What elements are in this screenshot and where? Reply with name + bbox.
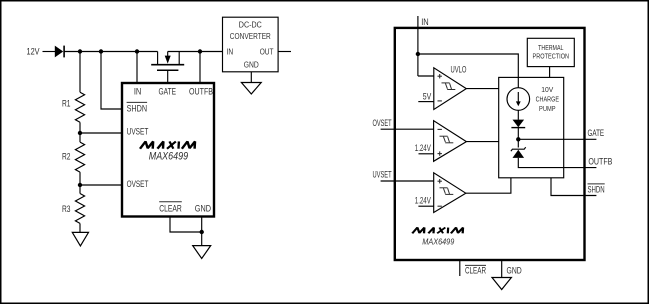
svg-text:SHDN: SHDN (588, 184, 605, 194)
wire main 12V rail (64, 51, 158, 53)
svg-text:MAX6499: MAX6499 (422, 236, 454, 246)
svg-text:OVSET: OVSET (127, 179, 149, 189)
wire R3 leads (79, 185, 81, 194)
wire DC-DC OUT stub (278, 51, 291, 53)
node gate junction (516, 137, 520, 141)
wire CLEAR stub right (459, 260, 461, 276)
wire DC-DC GND stub (250, 72, 252, 83)
svg-text:PUMP: PUMP (539, 104, 556, 113)
svg-text:IN: IN (227, 47, 234, 56)
logo MAXIM left (140, 141, 195, 148)
DC-DC converter box (223, 17, 279, 72)
wire UVLO output (466, 88, 498, 90)
wire IN to UVLO comparator (418, 75, 434, 77)
op-amp U1 MAX6499 box (122, 83, 214, 217)
node OVSET tap junction (78, 183, 82, 187)
current source stub (517, 77, 519, 87)
wire SHDN output (551, 178, 596, 196)
node UVSET tap junction (78, 131, 82, 135)
node junction rail/IN (135, 49, 139, 53)
svg-text:MAX6499: MAX6499 (149, 151, 188, 163)
svg-text:GND: GND (244, 61, 259, 70)
UVSET cmp plus (438, 179, 442, 183)
svg-text:10V: 10V (541, 85, 553, 94)
wire rail to SHDN pin (101, 52, 122, 110)
wire rail to R1 (79, 52, 81, 93)
node 1.24V reference ovset (419, 153, 434, 155)
svg-text:GATE: GATE (159, 87, 177, 97)
svg-text:UVLO: UVLO (451, 64, 467, 74)
charge pump box (499, 77, 564, 177)
svg-text:OVSET: OVSET (373, 118, 392, 128)
svg-text:GATE: GATE (588, 128, 605, 138)
svg-text:SHDN: SHDN (127, 104, 148, 114)
svg-text:UVSET: UVSET (373, 169, 392, 179)
wire 12V to diode D1 (43, 51, 56, 53)
svg-text:R3: R3 (62, 204, 71, 214)
transistor Q1 gate lead (167, 70, 169, 83)
op-amp OVSET comparator (434, 121, 467, 162)
svg-text:OUT: OUT (260, 47, 274, 56)
svg-text:1.24V: 1.24V (415, 195, 431, 205)
wire R2 leads (79, 133, 81, 142)
OVSET cmp plus (438, 151, 442, 155)
ground below U1 GND (193, 246, 211, 259)
wire GATE output (518, 138, 596, 140)
ground below R3 (72, 232, 88, 246)
node junction rail/OUTFB (198, 49, 202, 53)
block diagram outer box U2 (395, 28, 585, 260)
svg-text:12V: 12V (27, 47, 40, 57)
svg-text:OUTFB: OUTFB (189, 87, 213, 97)
svg-text:IN: IN (134, 87, 142, 97)
ground below block diagram (492, 278, 511, 290)
logo MAXIM right (412, 228, 463, 234)
wire OVSET input (381, 128, 434, 130)
wire R1 to UVSET tap (79, 122, 81, 133)
resistor R1 (75, 92, 84, 122)
node junction rail/R1 (78, 49, 82, 53)
diode D2 (511, 120, 525, 128)
resistor R3 (75, 194, 84, 224)
wire thermal to charge pump (549, 67, 551, 78)
svg-text:R1: R1 (62, 98, 71, 108)
UVSET cmp hysteresis (440, 188, 454, 195)
wire D2 to gate node (517, 128, 519, 148)
current source arrow (516, 92, 521, 106)
node 5V reference (418, 101, 434, 103)
wire IN entering top (417, 16, 419, 76)
wire circle to diode D2 (517, 110, 519, 120)
svg-text:CONVERTER: CONVERTER (230, 32, 271, 41)
svg-text:UVSET: UVSET (127, 126, 149, 136)
transistor Q1 source stub (178, 52, 180, 65)
wire UVSET tap to UVSET pin (80, 132, 122, 134)
current source circle (507, 88, 530, 111)
wire OVSET cmp output (466, 141, 498, 143)
svg-text:DC-DC: DC-DC (239, 20, 262, 29)
transistor Q1 channel bar (151, 64, 184, 66)
op-amp UVSET comparator (434, 173, 466, 213)
svg-text:CLEAR: CLEAR (159, 204, 182, 214)
svg-text:OUTFB: OUTFB (588, 157, 612, 167)
zener D3 (511, 147, 526, 158)
UVLO minus (438, 100, 442, 102)
wire rail to OUTFB pin (199, 52, 201, 84)
svg-text:CLEAR: CLEAR (465, 266, 486, 276)
node 1.24V reference uvset (418, 205, 433, 207)
svg-text:5V: 5V (423, 91, 432, 101)
svg-text:PROTECTION: PROTECTION (533, 52, 570, 61)
wire UVSET input (381, 180, 434, 182)
wire CLEAR to GND (170, 217, 202, 233)
node IN junction (416, 52, 420, 56)
UVSET cmp minus (438, 205, 442, 207)
wire rail to IN pin (136, 52, 138, 84)
OVSET cmp hysteresis (440, 136, 454, 143)
op-amp UVLO comparator (434, 68, 467, 110)
OVSET cmp minus (438, 128, 442, 130)
wire GND pin down (201, 217, 203, 246)
wire rail right of Q1 (168, 51, 223, 53)
node junction rail/SHDN (99, 49, 103, 53)
thermal protection box (527, 38, 574, 66)
transistor Q1 gate plate (157, 69, 178, 71)
wire UVSET cmp output (466, 178, 511, 193)
diode D1 (55, 46, 64, 58)
transistor Q1 body arrow (165, 52, 171, 64)
node CLEAR/GND junction (200, 230, 204, 234)
resistor R2 (75, 142, 84, 172)
wire OVSET tap to OVSET pin (80, 184, 122, 186)
svg-text:IN: IN (421, 17, 429, 27)
transistor Q1 drain stub (157, 52, 159, 65)
svg-text:R2: R2 (62, 151, 71, 161)
svg-text:GND: GND (195, 204, 212, 214)
svg-text:1.24V: 1.24V (415, 143, 431, 153)
wire GND stub right (501, 260, 503, 278)
wire OUTFB output (518, 158, 596, 168)
svg-text:GND: GND (507, 266, 523, 276)
UVLO plus (438, 74, 442, 78)
wire IN to charge pump (418, 54, 518, 77)
svg-text:CHARGE: CHARGE (536, 95, 559, 104)
UVLO hysteresis (442, 83, 456, 90)
ground below DC-DC (241, 83, 261, 95)
